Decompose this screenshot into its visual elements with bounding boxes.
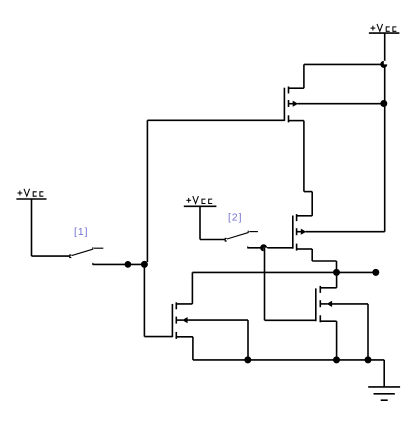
transistor Q4 (bottom right, NMOS) <box>316 286 337 322</box>
wire Q3 drain up to output node <box>191 272 193 304</box>
junction dot rail/Q3 body <box>244 356 251 363</box>
power +Vcc VCC3 (top right) <box>369 24 400 33</box>
junction dot Vcc/drain <box>380 61 387 68</box>
transistor Q2 (middle right, PMOS) <box>293 214 312 251</box>
wire to Q4 gate <box>265 319 316 321</box>
switch S1 <box>70 247 104 264</box>
wire to Q2 drain <box>311 192 313 216</box>
svg-text:[2]: [2] <box>228 212 242 223</box>
wire Q4 drain up to output node <box>336 272 338 287</box>
wire Q3 body right <box>187 319 248 321</box>
wire VCC2 down <box>199 206 201 239</box>
wire Q4 body right <box>332 303 369 305</box>
wire rail down to ground <box>383 360 385 387</box>
transistor Q1 (top right, PMOS) <box>284 87 304 123</box>
power +Vcc VCC2 (middle) <box>184 196 217 206</box>
wire Q2 source down <box>311 249 313 261</box>
wire S2 output to Q2 gate <box>248 247 293 249</box>
power +Vcc VCC1 (left) <box>16 189 46 199</box>
wire Q2 body to Vcc rail <box>306 231 385 233</box>
junction dot rail/Q4 source <box>333 356 340 363</box>
wire VCC1 to switch S1 <box>32 255 70 257</box>
wire node B down <box>264 248 266 320</box>
wire Q1 drain up <box>303 64 305 88</box>
junction node A dot <box>141 261 148 268</box>
switch S2 <box>225 231 258 248</box>
wire top rail to Vcc <box>304 63 385 65</box>
wire Q3 source down <box>192 337 194 360</box>
ground <box>368 387 400 400</box>
wire Q4 body down to rail <box>367 304 369 360</box>
wire VCC1 down <box>31 199 33 256</box>
transistor Q3 (bottom left, NMOS) <box>172 302 193 339</box>
wire VCC2 to switch S2 <box>200 239 225 241</box>
wire VCC3 vertical rail <box>384 33 386 232</box>
junction dot output node <box>333 269 340 276</box>
wire node A up to Q1 gate <box>146 120 148 262</box>
wire output node horizontal <box>192 271 375 273</box>
wire Q1 body to Vcc <box>298 103 385 105</box>
wire Q1 gate horizontal <box>147 119 284 121</box>
junction dot Vcc/body <box>380 100 387 107</box>
wire jog <box>304 191 312 193</box>
junction terminal dot output end <box>372 269 379 276</box>
wire down to output node <box>336 261 338 272</box>
wire S1 output to node <box>93 263 146 265</box>
wire jog right <box>312 260 336 262</box>
wire to Q3 gate horizontal <box>144 336 172 338</box>
junction dot rail/Q4 body <box>365 356 372 363</box>
wire Q3 body down to rail <box>247 320 249 360</box>
wire Q1 source down <box>303 121 305 192</box>
junction node B dot <box>260 244 267 251</box>
wire Q4 source down to rail <box>336 321 338 360</box>
wire bottom rail <box>193 359 384 361</box>
junction terminal dot (switch1 out) <box>125 261 132 268</box>
svg-text:[1]: [1] <box>74 227 88 238</box>
wire node A down to Q3 gate <box>143 264 145 336</box>
